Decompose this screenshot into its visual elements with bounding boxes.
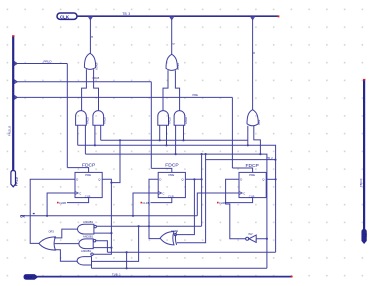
svg-text:AND2B1: AND2B1: [81, 249, 92, 253]
svg-text:TUB_1: TUB_1: [112, 273, 121, 277]
wire bottom long net: [37, 276, 292, 278]
svg-text:PRE: PRE: [193, 93, 199, 97]
wire stub AND_c corner to H267.3: [91, 265, 93, 268]
wire OR U2 right input pin: [94, 69, 99, 110]
wire riser v201.6 (Q2 net) from H154.1 down, corner into H226.2: [201, 154, 203, 226]
wire H215.8 clock net: [21, 215, 198, 217]
wire FF3 CLR: [226, 198, 253, 203]
and gate U6 (AND2, points up): [174, 111, 188, 126]
wire FF1 C input: [47, 193, 75, 216]
wire AND U4 right pin to H146: [166, 125, 168, 145]
node junction INV input on v266.9: [266, 238, 268, 240]
wire FF2 Q output to v201.6: [185, 178, 201, 180]
node junction AND U4 left pin on H140: [159, 139, 161, 141]
wire FF2 CLR: [151, 198, 172, 203]
node junction H159.6 right on v275.6: [274, 159, 276, 161]
or gate U10 (OR3, points left, bottom-left): [39, 230, 56, 251]
wire top horizontal net TB_3: [77, 15, 278, 17]
node bus open end (red tick) right top: [363, 79, 365, 81]
svg-text:TB_2: TB_2: [267, 156, 274, 160]
svg-text:XOR2: XOR2: [95, 62, 99, 70]
node junction Q2 on v201.6: [201, 178, 203, 180]
wire AND U11 input1 (bubble) to v149: [97, 225, 202, 227]
node open end (red) top right: [278, 15, 280, 17]
svg-text:C: C: [79, 191, 81, 195]
wire vertical from top net to OR U8: [252, 17, 254, 110]
wire OR U2 left input pin: [82, 69, 87, 110]
wire v126.6 down to H267.3: [126, 252, 128, 268]
port TB (bottom of right bus): [362, 230, 368, 244]
svg-text:CK: CK: [20, 215, 25, 219]
and gate U13 (AND2B1, points left): [77, 249, 93, 265]
wire AND U3 left pin to H146: [94, 125, 96, 145]
svg-text:PRLD_B: PRLD_B: [8, 126, 12, 136]
svg-text:PRE: PRE: [169, 173, 175, 177]
node junction Q2 riser on H154: [201, 153, 203, 155]
node junction AND U11 in1 on v149: [148, 225, 150, 227]
wire FF3 Q output: [266, 178, 275, 180]
node junction Q1 jog: [110, 182, 112, 184]
port CLR (bottom-left terminal): [24, 275, 38, 280]
or gate U8 (OR2, points up): [247, 110, 261, 126]
wire H252.2 from AND_b bubble jog to v275.6: [107, 251, 275, 253]
wire v138.6 down to AND_c in2: [92, 226, 139, 261]
and gate U11 (AND2B1, points left): [78, 220, 97, 234]
wire OR U5 left input pin: [163, 70, 168, 110]
wire vertical from top net to OR U2: [89, 17, 91, 54]
svg-text:AND2: AND2: [103, 117, 107, 124]
wire H267.3: [92, 267, 267, 269]
wire bus to FF3 PRE: horizontal y=97.1: [15, 96, 233, 98]
svg-text:CLR: CLR: [85, 194, 91, 198]
node junction AND U3 left pin: [94, 144, 96, 146]
svg-text:OR3: OR3: [49, 230, 55, 234]
node junction AND U6 right pin on H140: [182, 139, 184, 141]
wire AND U11 input2 to v111.4: [94, 232, 112, 234]
svg-text:C: C: [162, 191, 164, 195]
svg-text:OR2: OR2: [257, 119, 261, 125]
wire PRLD into FF1 PRE pin: [67, 168, 88, 173]
wire vertical x=151.3 down: [150, 82, 152, 169]
wire into FF2 PRE pin: [151, 168, 172, 172]
node bubble XOR U14 input1: [174, 234, 176, 236]
or gate U2 (OR2, points up): [84, 53, 98, 70]
wire PRLD to FF1 PRE: horizontal: [15, 63, 68, 65]
svg-text:C: C: [243, 191, 245, 195]
wire AND U1 right pin corner into H154: [84, 125, 86, 154]
node junction v126.6 on H252.2: [126, 251, 128, 253]
wire FF1 CLR: [67, 198, 89, 203]
wire AND U12 input2 to v111.4: [93, 247, 111, 249]
svg-text:TB_3: TB_3: [123, 12, 131, 16]
wire OR U10 input2 from AND_b output: [55, 243, 79, 245]
node junction FF2 C on H215.8: [132, 215, 134, 217]
svg-text:PRLD: PRLD: [44, 60, 53, 64]
wire vertical from top net to OR U5: [171, 17, 173, 55]
node open end red + label CLRB FF1: [57, 202, 59, 204]
svg-text:AND2: AND2: [168, 117, 172, 124]
svg-text:XOR2: XOR2: [176, 62, 180, 70]
node junction v126.6 on H267.3: [126, 267, 128, 269]
flip-flop FF2 FDCP: [158, 162, 185, 198]
svg-text:CLR: CLR: [168, 194, 174, 198]
wire Q1 branch jog to v120: [111, 140, 120, 182]
svg-text:CLR: CLR: [25, 275, 33, 279]
svg-text:TB[3:0]: TB[3:0]: [359, 178, 363, 187]
and gate U12 (AND2B1, points left): [79, 235, 96, 249]
flip-flop FF3 FDCP: [239, 163, 266, 199]
svg-text:D: D: [240, 177, 242, 181]
svg-text:CLRB: CLRB: [143, 201, 150, 205]
wire INV input from v266.9: [256, 238, 267, 240]
wire FF1 Q output to riser v111.4: [93, 179, 111, 254]
wire vertical x=232.4 down: [231, 97, 233, 168]
svg-text:PRLD: PRLD: [15, 176, 19, 186]
svg-text:CLR: CLR: [249, 194, 255, 198]
wire OR U10 input3 from AND_c output riser: [54, 250, 77, 261]
port CLK (top-left input terminal): [57, 13, 77, 20]
svg-text:XOR2: XOR2: [171, 229, 179, 233]
node open end red + label CLRB FF2: [141, 202, 143, 204]
wire AND U1 left pin corner into H146: [77, 125, 79, 145]
node junction v138.6 on H226.6: [138, 225, 140, 227]
wire tap junction at x=252.6 on top net: [251, 17, 255, 20]
and gate U1 (AND2, points up): [76, 111, 90, 126]
wire OR U5 right input pin: [175, 70, 179, 110]
node junction OR U8 left pin on H146: [247, 144, 249, 146]
node junction AND U6 left pin: [175, 153, 177, 155]
bus tap at y=63.5 on left bus: [15, 62, 18, 66]
wire long horizontal H154 with right corner down to INV: [85, 154, 267, 268]
wire FF3 C input corner into H215.8 right end: [197, 193, 239, 216]
svg-text:CLRB: CLRB: [59, 201, 66, 205]
bus tap at y=80.4 on left bus: [15, 80, 18, 84]
and gate U3 (AND2, points up): [93, 111, 107, 126]
svg-text:INV: INV: [248, 232, 253, 236]
svg-text:CLK: CLK: [60, 15, 70, 20]
wire OR U8 right input pin jog down to H154: [254, 126, 261, 154]
node junction Q3 on v275.6: [275, 178, 277, 180]
node junction AND U4 right pin: [165, 144, 167, 146]
node junction OR U8 right pin jog on H154: [259, 153, 261, 155]
svg-text:AND2B1: AND2B1: [83, 220, 94, 224]
wire FF2 C input: [133, 193, 158, 216]
wire OR U10 input1 from AND_a output riser: [54, 229, 77, 238]
node junction Q1 riser on H140: [119, 139, 121, 141]
svg-text:AND2B1: AND2B1: [83, 235, 94, 239]
svg-text:AND2: AND2: [85, 117, 89, 124]
svg-text:FDCP: FDCP: [82, 162, 95, 168]
svg-text:FDCP: FDCP: [246, 163, 259, 169]
svg-text:D: D: [76, 177, 78, 181]
wire AND U6 right pin to H140: [183, 125, 185, 140]
wire XOR U14 input2 riser to H159.6: [177, 160, 206, 243]
wire long horizontal H140: [101, 139, 248, 141]
bus tap at y=97.1 on left bus: [15, 96, 18, 100]
wire AND U6 left pin to H154: [175, 125, 177, 154]
wire H159.6 branch to v275.6: [206, 154, 276, 160]
and gate U4 (AND2, points up): [158, 111, 172, 126]
bus TB (right vertical bus): [363, 81, 365, 230]
svg-text:TB: TB: [364, 233, 368, 237]
flip-flop FF1 FDCP: [75, 162, 102, 198]
or gate U5 (OR2, points up): [166, 54, 180, 70]
svg-text:PRE: PRE: [249, 173, 255, 177]
wire long horizontal H146 with right corner down: [78, 145, 276, 252]
node junction XOR in1 riser on Q2 wire: [193, 178, 195, 180]
node junction H159.6 riser on H154: [205, 153, 207, 155]
svg-text:FDCP: FDCP: [165, 162, 178, 168]
wire FF2 D input from XOR-b output riser: [149, 179, 160, 238]
inverter U15 (INV, points left): [246, 232, 257, 242]
wire AND U3 right pin corner into H140: [100, 125, 102, 140]
wire PRLD vertical down x=67.3: [66, 64, 68, 168]
svg-text:D: D: [159, 177, 161, 181]
bus PRLD (left vertical bus): [12, 37, 14, 171]
svg-text:AND2: AND2: [184, 117, 188, 124]
wire into FF3 PRE pin: [232, 168, 252, 172]
node junction AND U11 in2 on v111.4: [110, 232, 112, 234]
wire FF3 D input from INV output chain: [226, 179, 246, 238]
wire bus to FF2 PRE: horizontal y=80.4: [15, 81, 152, 83]
wire tap junction at x=90.4 on top net: [89, 17, 93, 20]
xor gate U14 (XOR2, points left, bottom): [160, 229, 179, 245]
wire OR U8 left input pin to H146: [247, 126, 249, 146]
wire XOR U14 input1 riser to Q2 wire: [176, 179, 194, 234]
port PRLD (bottom of left bus, vertical terminal): [11, 171, 19, 187]
node open end red + label CLRB FF3: [217, 202, 219, 204]
node open end (red) bottom: [291, 276, 293, 278]
svg-text:PRE: PRE: [85, 173, 91, 177]
node junction AND U12 in2 on v111.4: [110, 247, 112, 249]
node bus open end (red tick): [12, 35, 14, 37]
wire FF1 D input from OR output riser: [30, 179, 75, 243]
svg-text:CLRB: CLRB: [219, 201, 226, 205]
wire AND U4 left pin to H140: [159, 125, 161, 140]
wire AND U12 input1 (bubble) jog down to H252.2: [96, 241, 108, 253]
node junction FF1 C on H215.8: [46, 215, 48, 217]
wire tap junction at x=171.7 on top net: [170, 17, 174, 20]
